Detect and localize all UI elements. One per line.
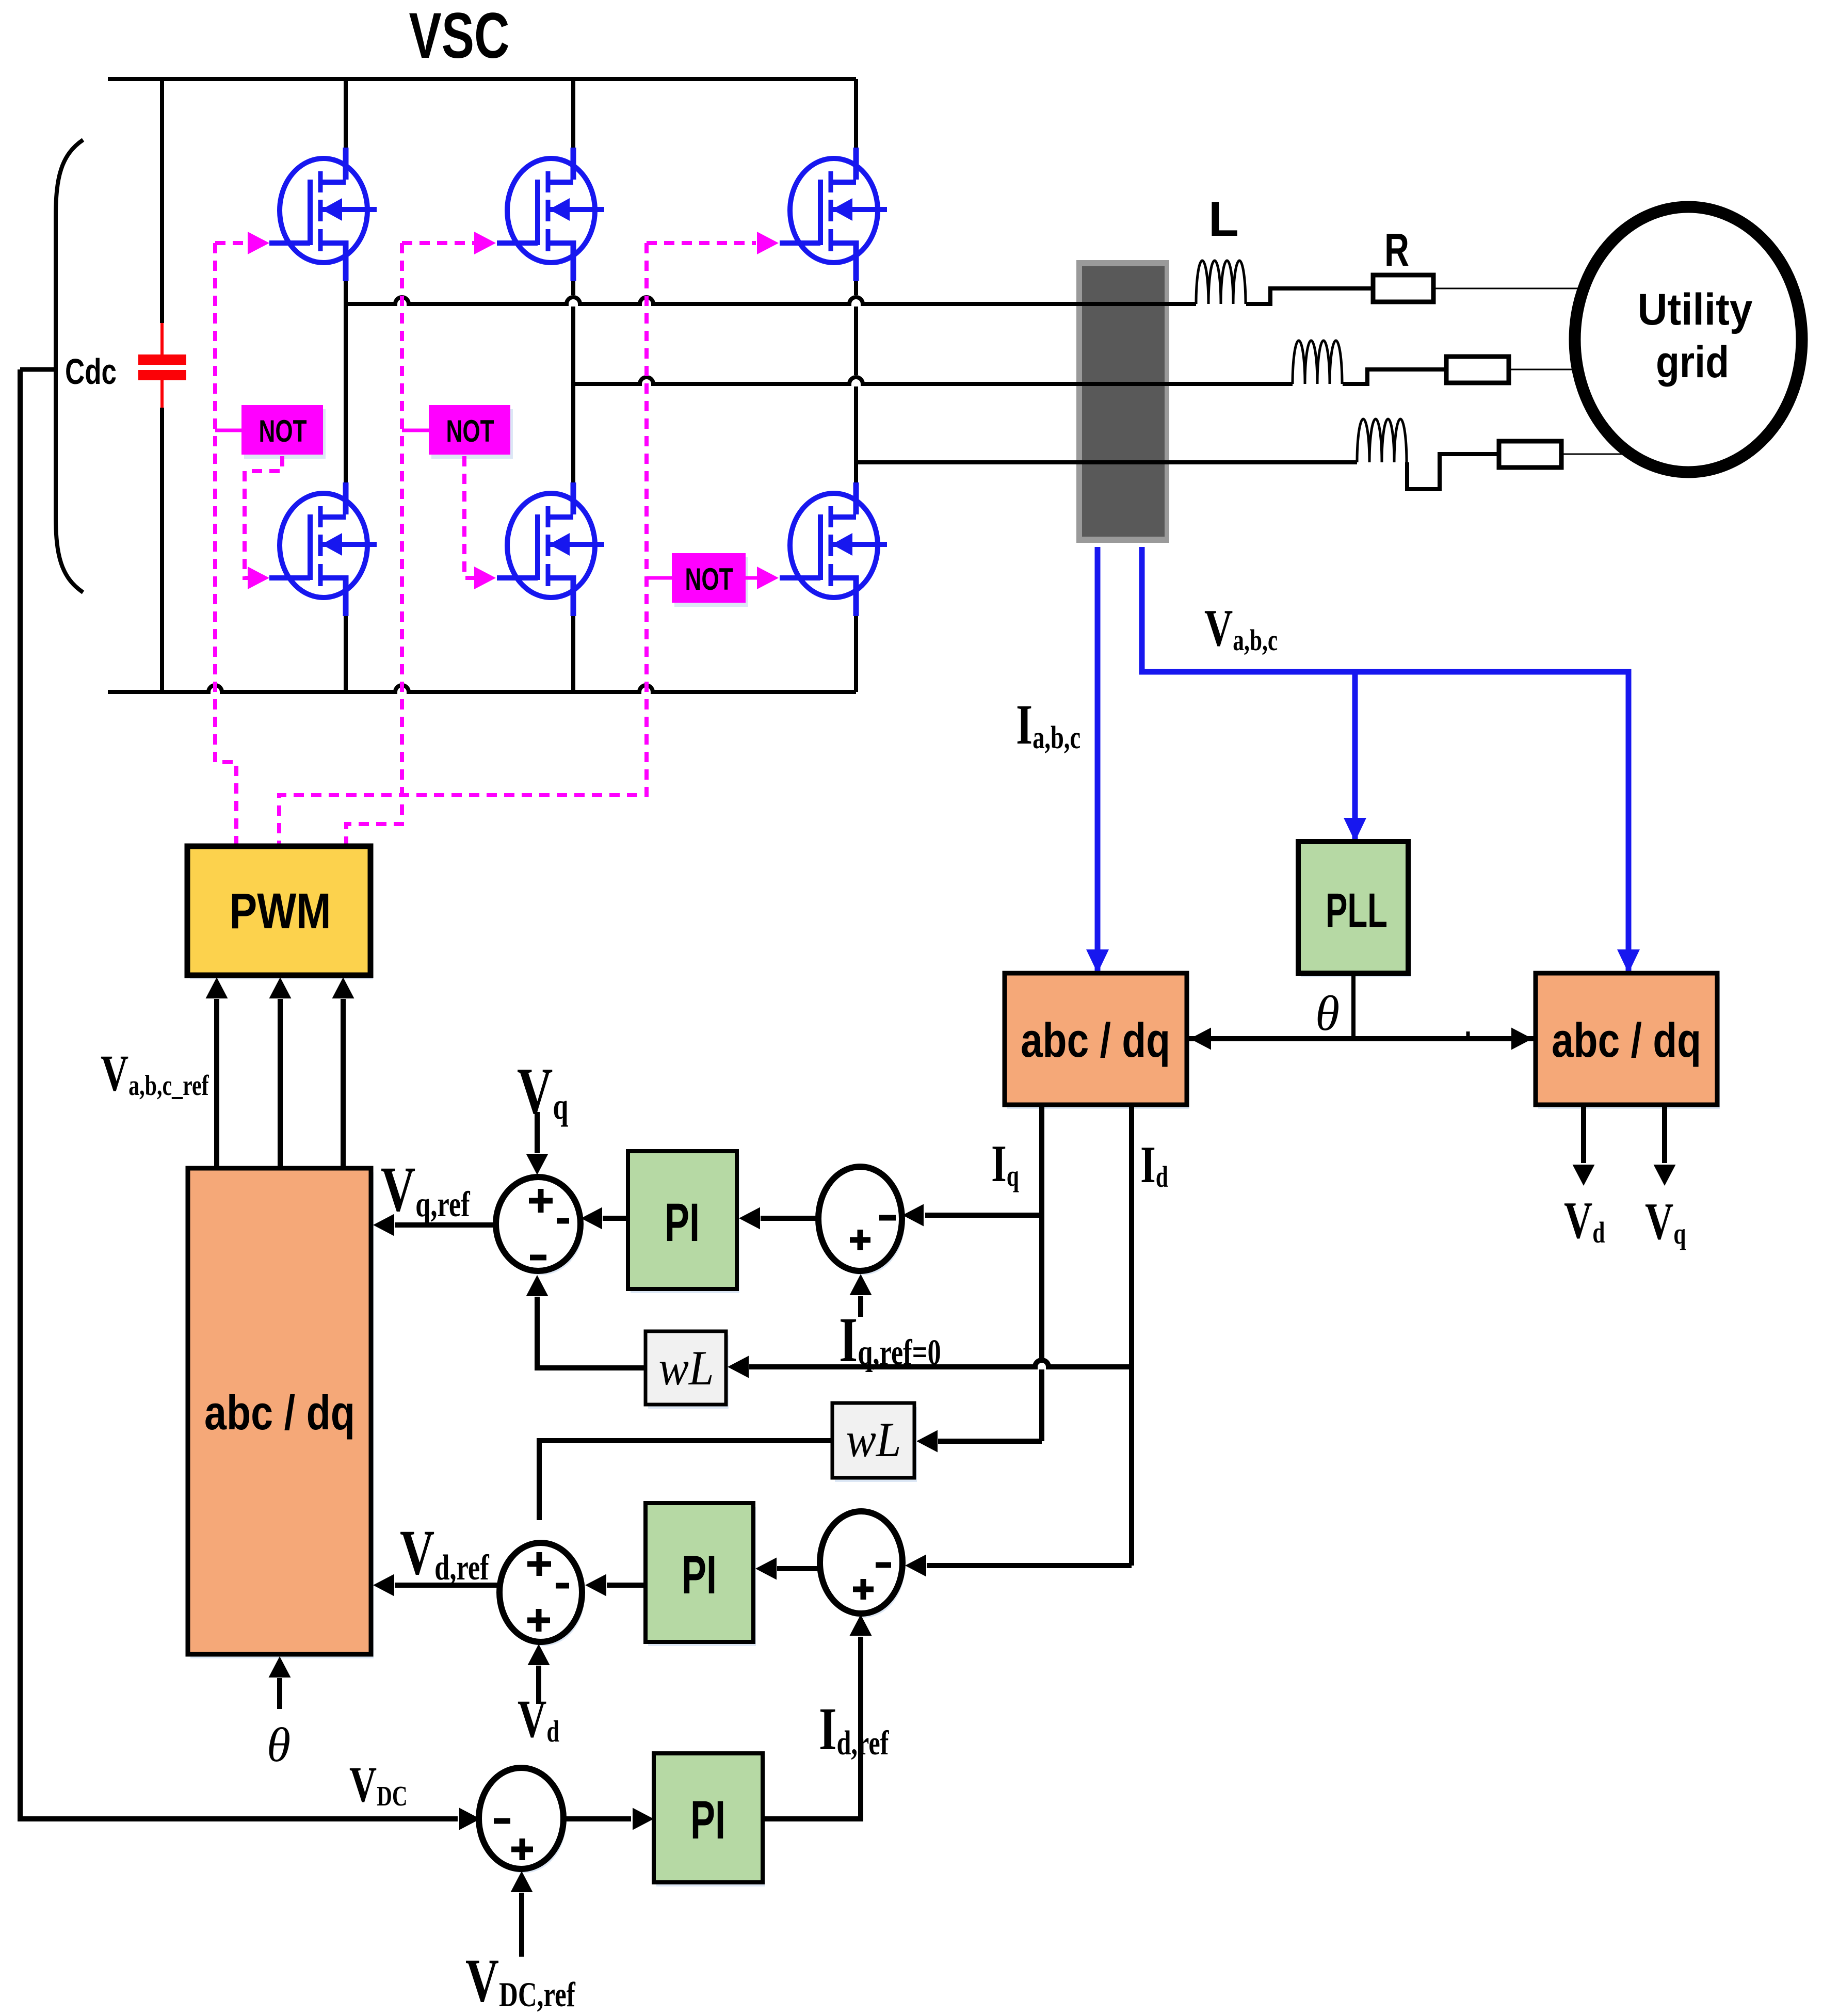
- svg-text:Cdc: Cdc: [65, 351, 117, 392]
- svg-text:grid: grid: [1656, 337, 1729, 387]
- svg-text:wL: wL: [846, 1412, 901, 1467]
- svg-text:Utility: Utility: [1638, 285, 1753, 334]
- svg-text:wL: wL: [659, 1341, 714, 1395]
- svg-text:abc / dq: abc / dq: [204, 1385, 355, 1440]
- svg-text:abc / dq: abc / dq: [1552, 1013, 1701, 1067]
- svg-text:PI: PI: [690, 1790, 725, 1850]
- svg-text:R: R: [1384, 224, 1409, 276]
- svg-text:VSC: VSC: [409, 0, 510, 72]
- svg-text:abc / dq: abc / dq: [1021, 1013, 1170, 1067]
- svg-text:NOT: NOT: [259, 414, 307, 448]
- svg-text:L: L: [1208, 191, 1239, 247]
- svg-text:NOT: NOT: [446, 414, 494, 448]
- svg-text:NOT: NOT: [685, 562, 733, 596]
- svg-text:PWM: PWM: [230, 883, 331, 939]
- svg-text:PLL: PLL: [1326, 883, 1388, 938]
- svg-text:PI: PI: [682, 1545, 717, 1605]
- svg-text:θ: θ: [267, 1718, 291, 1772]
- svg-text:PI: PI: [665, 1192, 700, 1253]
- svg-text:θ: θ: [1315, 986, 1340, 1041]
